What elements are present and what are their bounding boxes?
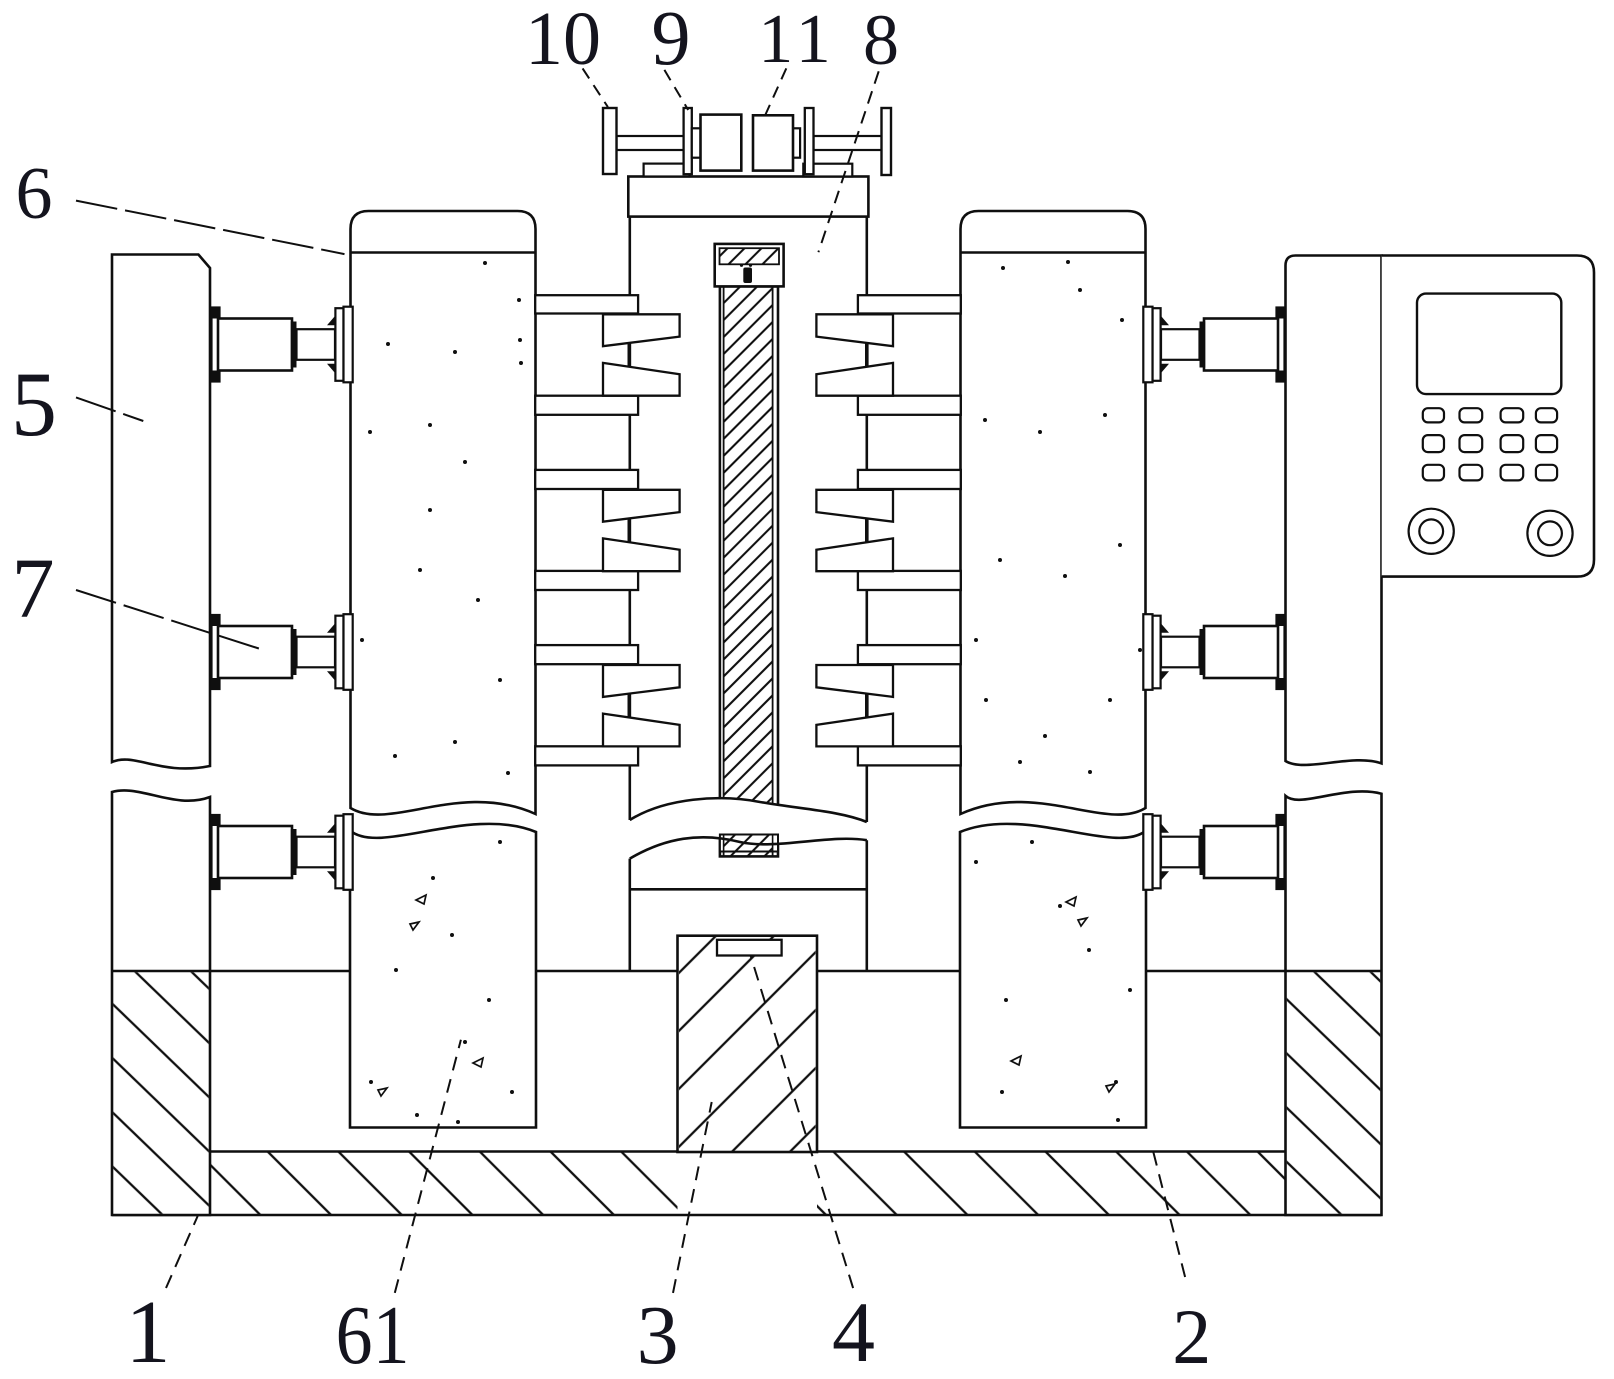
svg-text:9: 9 <box>652 0 691 81</box>
label 1 <box>126 1283 171 1379</box>
leader line for label 11 <box>766 68 787 114</box>
label 4 <box>832 1284 875 1379</box>
column break gap white-out <box>631 799 866 859</box>
column 8 inner floor line <box>630 888 867 891</box>
right clamping block (upper piece, stippled) <box>961 211 1146 815</box>
screw rod top cap <box>715 244 784 287</box>
rod lower stub between waves (hatched) <box>720 835 778 852</box>
label 61 <box>336 1289 410 1379</box>
label 3 <box>637 1289 679 1379</box>
control panel screen <box>1417 294 1561 395</box>
left claw pair 1 <box>603 314 680 395</box>
label 8 <box>863 0 899 80</box>
left shaft of top assembly <box>617 136 685 150</box>
right coupling block <box>792 128 800 157</box>
right shaft of top assembly <box>814 136 882 150</box>
left side plate 5 (upper piece) <box>112 255 210 769</box>
label 10 <box>525 0 601 81</box>
right flange bar <box>805 108 814 174</box>
right claw pair 2 <box>816 490 893 571</box>
left claw pair 3 <box>603 665 680 746</box>
motor 11 <box>753 115 793 170</box>
control panel right knob <box>1527 511 1572 556</box>
left lower block 61 (stippled) <box>350 824 536 1128</box>
clamp actuator right top <box>1143 307 1284 383</box>
right claw pair 3 <box>816 665 893 746</box>
left T end-cap 10 <box>603 108 617 174</box>
svg-text:7: 7 <box>12 540 55 636</box>
left coupling block <box>692 128 701 157</box>
leader line for label 1 <box>166 1216 198 1288</box>
right comb rail bars <box>858 295 961 765</box>
control panel keypad <box>1423 408 1557 480</box>
svg-text:4: 4 <box>832 1284 875 1379</box>
left comb rail bars <box>535 295 638 765</box>
svg-text:11: 11 <box>758 1 835 78</box>
right T end-cap <box>882 108 892 175</box>
svg-text:2: 2 <box>1172 1293 1211 1379</box>
leader line for label 61 <box>395 1040 461 1293</box>
label 5 <box>11 353 57 455</box>
left flange bar <box>684 108 692 174</box>
leader line for label 3 <box>673 1102 712 1293</box>
left claw pair 2 <box>603 490 680 571</box>
leader line for label 6 <box>76 201 345 255</box>
svg-text:5: 5 <box>11 353 57 455</box>
leader line for label 9 <box>664 70 688 110</box>
base tub rim line <box>210 970 1286 973</box>
svg-text:8: 8 <box>863 0 899 80</box>
right mounting ledge on top plate <box>803 164 852 177</box>
clamp actuator right bottom <box>1143 814 1284 890</box>
leader line for label 2 <box>1153 1152 1185 1278</box>
leader line for label 4 <box>751 955 854 1288</box>
pad 4 on support block <box>717 940 782 956</box>
right claw pair 1 <box>816 314 893 395</box>
left mounting ledge on top plate <box>644 164 690 177</box>
column top plate <box>628 177 868 217</box>
support block 3 (hatched pedestal) <box>678 936 818 1152</box>
svg-text:3: 3 <box>637 1289 679 1379</box>
screw rod core (hatched) body <box>720 286 778 856</box>
svg-text:1: 1 <box>126 1283 171 1379</box>
leader line for label 5 <box>76 397 143 421</box>
clamp actuator 7 left top <box>212 307 353 383</box>
right lower block (stippled) <box>960 824 1146 1128</box>
label 2 <box>1172 1293 1211 1379</box>
leader line for label 10 <box>583 68 608 107</box>
clamp actuator left middle <box>212 614 353 690</box>
svg-text:6: 6 <box>16 153 53 235</box>
right side plate (upper piece) <box>1286 256 1382 765</box>
column 8 walls <box>630 217 867 971</box>
label 7 <box>12 540 55 636</box>
column break upper wave <box>630 798 867 822</box>
motor 9 <box>701 115 742 171</box>
control panel left knob <box>1409 509 1454 554</box>
left clamping block 6 (upper piece, stippled) <box>351 211 536 815</box>
base floor band 2 (hatched bottom of tub) <box>112 1152 1382 1216</box>
left side plate lower piece and hatched tub wall 1 <box>112 790 210 1215</box>
leader line for label 8 <box>818 71 878 252</box>
label 11 <box>758 1 835 78</box>
label 9 <box>652 0 691 81</box>
control panel box <box>1382 256 1594 577</box>
column break lower wave <box>630 837 867 858</box>
svg-text:61: 61 <box>336 1289 410 1379</box>
clamp actuator right middle <box>1143 614 1284 690</box>
leader line for label 7 <box>76 590 263 650</box>
svg-text:10: 10 <box>525 0 601 81</box>
clamp actuator left bottom <box>212 814 353 890</box>
label 6 <box>16 153 53 235</box>
right side plate lower piece and hatched tub wall <box>1286 791 1382 1215</box>
